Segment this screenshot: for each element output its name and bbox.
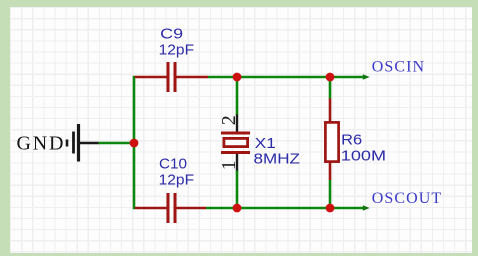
svg-text:OSCIN: OSCIN — [372, 59, 426, 76]
svg-text:12pF: 12pF — [159, 172, 195, 189]
svg-text:1: 1 — [218, 160, 240, 170]
svg-text:100M: 100M — [341, 147, 386, 164]
svg-text:GND: GND — [17, 133, 66, 155]
svg-text:2: 2 — [218, 115, 240, 125]
svg-text:C9: C9 — [160, 26, 183, 43]
svg-text:12pF: 12pF — [159, 42, 195, 59]
svg-text:C10: C10 — [159, 156, 187, 173]
svg-text:OSCOUT: OSCOUT — [372, 190, 443, 207]
svg-text:8MHZ: 8MHZ — [254, 150, 301, 167]
svg-text:R6: R6 — [341, 132, 362, 149]
